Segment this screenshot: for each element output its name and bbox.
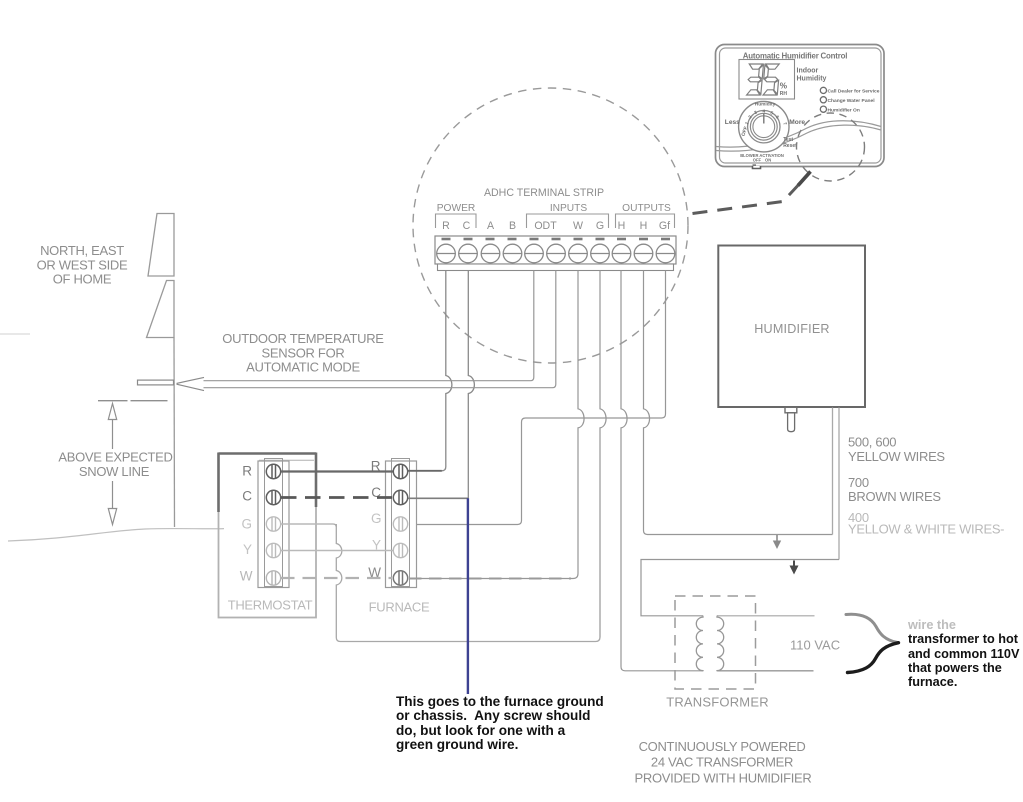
thermostat box dark left edge (217, 453, 220, 513)
ADHC terminal strip body (435, 236, 676, 264)
splice arrow on wire B (790, 561, 799, 575)
bracket OUTPUTS (616, 214, 675, 228)
wire Y thermostat-furnace (281, 550, 393, 552)
furnace screw W (393, 571, 407, 585)
wire G vertical with hops (336, 524, 600, 642)
furnace screw R (393, 464, 407, 478)
furnace labels R C G Y W (368, 459, 381, 581)
wire Gf to furnace G (417, 271, 666, 525)
svg-text:OFF ON: OFF ON (753, 158, 771, 163)
magnifier handle (798, 172, 811, 186)
control unit U1 outer case (716, 45, 885, 167)
bracket INPUTS (527, 214, 609, 228)
svg-text:%: % (780, 82, 788, 91)
LCD digit 3 (747, 64, 764, 95)
thermostat box dark top edge (219, 452, 317, 455)
magnifier big dashed circle (413, 88, 688, 363)
indicator circle 1 (820, 87, 826, 93)
humidifier wire A (832, 408, 834, 535)
indicator circle 2 (820, 97, 826, 103)
thermostat screw G (266, 517, 280, 531)
sweep curve lower (716, 125, 881, 151)
ground curve (8, 529, 224, 541)
control unit inner panel (720, 48, 882, 163)
wire R furnace to ADHC (408, 470, 442, 472)
label OUTDOOR TEMPERATURE SENSOR FOR AUTOMATIC MODE (222, 331, 384, 375)
dashed leader to control (693, 173, 810, 214)
label CONTINUOUSLY POWERED 24VAC (635, 739, 812, 786)
humidifier wire B (838, 408, 840, 560)
label 400 yellow white wires (848, 510, 1004, 537)
svg-text:Indoor: Indoor (797, 68, 819, 75)
note furnace ground text (396, 695, 604, 752)
wire H1 vertical with hop to transformer (621, 271, 703, 671)
label NORTH EAST OR WEST SIDE OF HOME (37, 243, 128, 287)
small dashed circle magnifier (797, 113, 865, 181)
strip bottom band (438, 264, 674, 271)
LCD display frame (739, 60, 795, 100)
wall upper section (148, 214, 174, 277)
bottom tab (753, 166, 761, 169)
splice arrow on wire A (773, 535, 781, 549)
label ABOVE EXPECTED SNOW LINE (58, 450, 172, 479)
wire C vertical with hop (468, 271, 474, 499)
thermostat box (219, 454, 317, 618)
thermostat strip inner (265, 459, 283, 587)
svg-text:Change Water Panel: Change Water Panel (828, 98, 876, 104)
wire ODT1 to sensor top (204, 271, 534, 381)
transformer dashed box (675, 596, 756, 689)
svg-text:RH: RH (780, 91, 788, 97)
svg-text:Humidity: Humidity (755, 102, 776, 108)
wire C dashed thermostat-furnace (281, 496, 392, 499)
wire R vertical with hop (407, 271, 452, 471)
dial outer ring (739, 102, 789, 152)
wire R thermostat-furnace (281, 470, 393, 472)
thermostat labels R C G Y W (240, 464, 253, 584)
wire W vertical with hop (409, 271, 584, 579)
thermostat strip outer (258, 461, 289, 588)
screw top dashes (442, 238, 671, 241)
secondary top lead (718, 615, 815, 617)
wire B horizontal to transformer (641, 560, 839, 616)
furnace screw Y (393, 543, 407, 557)
dial pointer (763, 114, 765, 124)
furnace screw G (393, 517, 407, 531)
furnace strip outer (386, 461, 417, 588)
wire H2 vertical with hop to humidifier (644, 271, 833, 535)
dial knob rings (748, 111, 780, 143)
svg-text:More: More (789, 119, 805, 126)
wire ODT2 to sensor bottom (204, 271, 556, 388)
humidifier nozzle collar (785, 407, 797, 413)
sensor arrowhead (177, 377, 205, 390)
wire G corner start (333, 524, 336, 527)
furnace screw C (393, 490, 407, 504)
wire W dashed furnace to ADHC (409, 578, 571, 580)
svg-text:Call Dealer for Service: Call Dealer for Service (828, 89, 880, 95)
dial numbers (744, 109, 788, 127)
screws R C A B ODT ODT W G H H Gf (437, 244, 675, 263)
furnace strip inner (392, 459, 410, 587)
thermostat screw W (266, 571, 280, 585)
stray mark left edge (0, 333, 30, 335)
snow reference dashed line (98, 400, 168, 402)
label 700 brown wires (848, 475, 941, 504)
LCD digit 5 (762, 64, 780, 95)
thermostat screw Y (266, 543, 280, 557)
blue ground wire (467, 498, 469, 694)
brace top (846, 614, 898, 642)
svg-text:Less: Less (725, 119, 740, 126)
thermostat screw C (266, 490, 280, 504)
outdoor temperature sensor body (138, 380, 174, 385)
brace bottom (848, 643, 899, 673)
svg-text:4: 4 (763, 109, 766, 114)
svg-text:Reset: Reset (783, 143, 797, 149)
wire G vertical with hop (600, 271, 606, 638)
secondary bottom lead (718, 670, 814, 672)
transformer primary coil (696, 616, 703, 671)
transformer secondary coil (717, 616, 724, 671)
humidifier nozzle body (788, 413, 795, 432)
humidifier box (718, 246, 865, 408)
wire C furnace to junction (408, 497, 468, 499)
bracket POWER (436, 214, 477, 228)
snow measure line with arrows (108, 404, 116, 525)
label 500 600 yellow wires (848, 435, 945, 465)
thermostat box dark right edge (315, 453, 318, 508)
thermostat screw R (266, 464, 280, 478)
wire G thermostat segment (281, 523, 333, 525)
terminal letters row (442, 220, 670, 232)
indicator circle 3 (820, 106, 826, 112)
svg-text:Humidity: Humidity (797, 76, 827, 83)
thermostat strip top line (259, 459, 314, 461)
sweep curve upper (716, 121, 881, 147)
wire W dashed thermostat-furnace (281, 577, 392, 579)
note wire the transformer (908, 618, 1019, 689)
wall line below (173, 338, 176, 528)
wall lower section (147, 281, 175, 338)
